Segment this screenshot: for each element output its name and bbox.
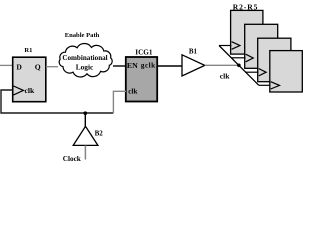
wire diagonal clock fanout [219, 46, 259, 86]
register R2 [231, 10, 263, 54]
svg-text:Clock: Clock [63, 155, 81, 163]
svg-text:B2: B2 [95, 129, 104, 137]
wire R1 clk feedback left [1, 90, 113, 113]
wire B1 output clk net [205, 64, 239, 66]
clk wedge R1 [14, 86, 24, 95]
svg-text:Logic: Logic [76, 63, 94, 72]
buffer B2 [73, 126, 98, 145]
svg-text:Combinational: Combinational [62, 54, 107, 62]
svg-text:gclk: gclk [141, 62, 156, 70]
svg-text:clk: clk [128, 88, 137, 96]
register R5 [270, 51, 303, 92]
svg-text:B1: B1 [189, 47, 198, 55]
svg-text:EN: EN [127, 61, 138, 70]
svg-text:clk: clk [220, 72, 230, 81]
wire Q to cloud [46, 66, 58, 68]
clk wedge R5 [271, 82, 280, 89]
register R1 [13, 57, 46, 101]
clk wedge R2 [232, 42, 240, 50]
wire D input [0, 64, 13, 66]
cloud combinational logic [59, 44, 112, 77]
register R3 [245, 24, 278, 68]
svg-text:D: D [16, 62, 22, 71]
wire tail to R2 [219, 45, 231, 47]
svg-text:R2-R5: R2-R5 [233, 2, 259, 11]
svg-text:Enable Path: Enable Path [65, 32, 100, 39]
clk wedge R3 [246, 54, 254, 62]
svg-text:R1: R1 [24, 47, 32, 54]
wire tail to R5 [259, 84, 271, 86]
svg-text:ICG1: ICG1 [135, 48, 153, 56]
node junction B2 [84, 111, 88, 115]
wire Clock stem [84, 145, 86, 159]
wire cloud to ICG1 EN [113, 65, 126, 67]
ICG cell ICG1 [126, 57, 157, 102]
register R4 [258, 38, 291, 81]
wire tail to R3 [231, 57, 245, 59]
wire tail to R4 [245, 71, 258, 73]
svg-text:clk: clk [25, 86, 35, 95]
buffer B1 [182, 55, 205, 76]
clk wedge R4 [259, 69, 266, 76]
wire to ICG1 clk [113, 91, 126, 113]
node junction clk/diagonal [237, 64, 241, 68]
svg-text:Q: Q [35, 62, 41, 71]
wire gclk to B1 [157, 65, 182, 67]
wire junction to B2 [84, 113, 86, 126]
